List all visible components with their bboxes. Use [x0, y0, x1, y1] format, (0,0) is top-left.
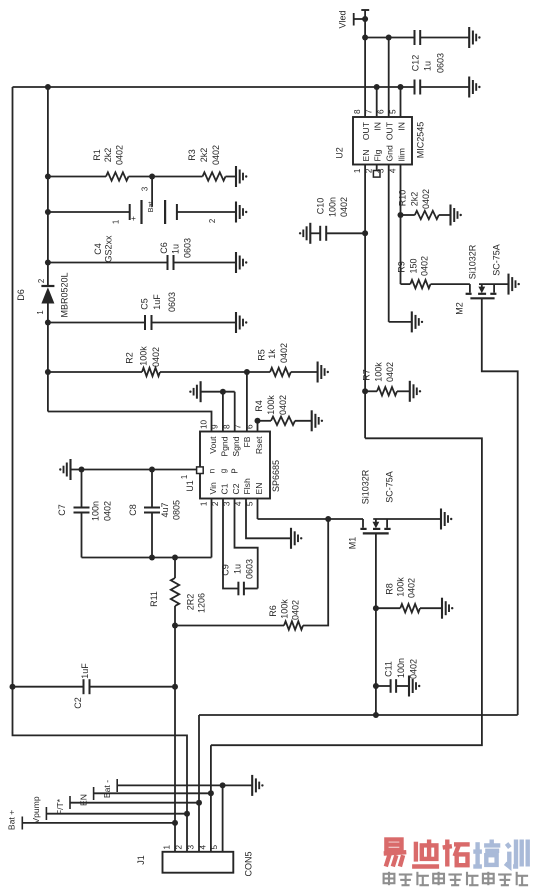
- svg-text:C8: C8: [128, 504, 138, 516]
- label C9 1u 0603: [221, 559, 255, 579]
- svg-text:2k2: 2k2: [103, 148, 113, 163]
- wire battery input rail y=87: [13, 84, 415, 90]
- svg-text:MBR0520L: MBR0520L: [60, 272, 70, 317]
- svg-text:Vpump: Vpump: [31, 796, 41, 823]
- svg-text:Vin: Vin: [208, 482, 218, 494]
- svg-text:100k: 100k: [266, 395, 276, 415]
- svg-text:100k: 100k: [395, 577, 405, 597]
- svg-text:0402: 0402: [103, 501, 113, 521]
- svg-text:C12: C12: [410, 55, 420, 72]
- svg-text:C4: C4: [93, 243, 103, 255]
- capacitor C7: [74, 470, 90, 558]
- label R11 2R2 1206: [149, 591, 207, 613]
- wire EN vertical to connector pin4: [208, 745, 214, 852]
- label C5 1uF 0603: [140, 292, 178, 312]
- svg-text:1u: 1u: [422, 61, 432, 71]
- svg-text:C6: C6: [159, 242, 169, 254]
- svg-text:8: 8: [223, 424, 232, 429]
- svg-text:0402: 0402: [421, 189, 431, 209]
- svg-text:1: 1: [111, 220, 120, 224]
- wire C10 to EN node: [326, 232, 365, 234]
- label R3 2k2 0402: [187, 145, 221, 165]
- ground at battery pin2: [236, 202, 247, 223]
- label C4 GS2xx: [93, 235, 113, 263]
- ground at U2 pin3: [412, 311, 423, 332]
- svg-text:1uF: 1uF: [152, 294, 162, 310]
- resistor R11: [171, 558, 179, 629]
- svg-text:R10: R10: [398, 190, 408, 207]
- wire U2 pin8 OUT to Vled rail: [364, 38, 366, 118]
- U1 pin numbers 10 9 8 7 6: [199, 419, 254, 429]
- svg-text:U1: U1: [185, 480, 195, 492]
- svg-text:C2: C2: [73, 697, 83, 709]
- svg-text:Vout: Vout: [208, 436, 218, 454]
- svg-text:Pgnd: Pgnd: [219, 436, 229, 456]
- resistor R4: [258, 417, 312, 425]
- svg-text:0402: 0402: [339, 197, 349, 217]
- wire EN net to U2 pin1: [211, 438, 482, 745]
- svg-text:3: 3: [141, 187, 150, 191]
- ground at M2 source: [509, 274, 520, 295]
- svg-text:5: 5: [388, 109, 397, 114]
- U2 pin numbers 8 7 6 5: [353, 109, 397, 114]
- capacitor C5: [145, 315, 236, 330]
- svg-text:IN: IN: [396, 122, 406, 131]
- svg-text:1206: 1206: [197, 593, 207, 613]
- svg-text:0402: 0402: [385, 362, 395, 382]
- capacitor C11: [391, 679, 409, 693]
- ground at C11: [409, 676, 420, 697]
- wire F/T* horizontal net: [199, 714, 518, 716]
- svg-text:C1: C1: [219, 483, 229, 494]
- svg-text:9: 9: [211, 424, 220, 429]
- svg-text:100k: 100k: [139, 346, 149, 366]
- label C10 100n 0402: [316, 197, 350, 217]
- ground at U1 Flsh: [291, 528, 302, 549]
- label C11 100n 0402: [383, 658, 418, 679]
- capacitor C10: [310, 226, 326, 241]
- U1 pin numbers 1 2 3 4 5: [199, 501, 254, 506]
- svg-text:0603: 0603: [182, 238, 192, 258]
- svg-text:1u: 1u: [233, 564, 243, 574]
- svg-text:8: 8: [353, 109, 362, 114]
- svg-text:4: 4: [388, 168, 397, 173]
- resistor R1: [45, 172, 155, 180]
- wire C6 row: [45, 260, 168, 266]
- wire U2 pin6 OUT to Vled rail: [388, 38, 390, 118]
- U2 pin2 Flg no-connect square: [373, 165, 380, 178]
- label R6 100k 0402: [268, 599, 301, 620]
- svg-text:CON5: CON5: [244, 851, 254, 876]
- svg-text:D6: D6: [16, 289, 26, 301]
- svg-text:R4: R4: [254, 400, 264, 412]
- label R8 100k 0402: [384, 577, 416, 598]
- battery C4 GS2xx: [45, 200, 236, 224]
- ground at R4: [312, 410, 323, 431]
- svg-text:Flg: Flg: [373, 149, 383, 161]
- svg-text:1: 1: [353, 168, 362, 173]
- transistor M1 Si1032R: [348, 519, 441, 549]
- svg-text:C5: C5: [140, 298, 150, 310]
- svg-text:1uF: 1uF: [80, 663, 90, 679]
- wire to C11: [376, 685, 391, 687]
- svg-text:C10: C10: [316, 198, 326, 215]
- svg-text:6: 6: [245, 424, 254, 429]
- svg-text:Vled: Vled: [337, 10, 347, 28]
- svg-text:EN: EN: [361, 150, 371, 162]
- svg-text:U2: U2: [335, 147, 345, 159]
- svg-text:IN: IN: [373, 122, 383, 131]
- label C12 1u 0603: [410, 53, 445, 73]
- resistor R7: [365, 387, 410, 395]
- ground at C6: [236, 252, 247, 273]
- svg-text:0402: 0402: [279, 343, 289, 363]
- label R5 1k 0402: [257, 343, 289, 363]
- svg-text:SC-75A: SC-75A: [385, 471, 395, 503]
- wire Vin bottom line: [82, 555, 212, 561]
- svg-text:1: 1: [180, 475, 189, 479]
- wire U1 pin2 C1 to C9: [223, 499, 238, 589]
- wire Vled rail: [362, 19, 414, 41]
- svg-text:0402: 0402: [278, 395, 288, 415]
- ground at C5: [236, 312, 247, 333]
- ground at R10: [451, 205, 462, 226]
- svg-text:2k2: 2k2: [410, 192, 420, 207]
- label R1 2k2 0402: [92, 145, 125, 165]
- svg-text:1k: 1k: [267, 349, 277, 359]
- svg-text:4: 4: [199, 845, 208, 850]
- label R10 2k2 0402: [398, 189, 432, 209]
- svg-text:1: 1: [199, 501, 208, 506]
- svg-text:EN: EN: [79, 794, 89, 806]
- wire node FB-div to U1 pin10: [48, 412, 212, 432]
- label M1 Si1032R SC-75A: [361, 469, 395, 504]
- svg-text:g: g: [219, 469, 228, 473]
- diode D6 MBR0520L: [16, 272, 70, 317]
- wire C5 row: [45, 320, 145, 326]
- svg-text:R1: R1: [92, 149, 102, 161]
- svg-text:MIC2545: MIC2545: [416, 122, 426, 159]
- svg-text:4u7: 4u7: [160, 502, 170, 517]
- ground wire to U1 pad (gnd line): [59, 459, 197, 480]
- wire D6 anode down: [47, 304, 49, 412]
- wire U1 pin4 Flsh to ground: [246, 499, 291, 539]
- ground wire at U1 Pgnd/Sgnd: [189, 381, 235, 402]
- wire U1 pin8 Sgnd: [234, 392, 236, 432]
- wire F/T* vertical to connector pin3: [196, 715, 202, 852]
- wire M1 gate to F/T* node: [373, 533, 379, 718]
- capacitor C2: [84, 679, 176, 694]
- svg-text:5: 5: [210, 845, 219, 850]
- svg-text:Si1032R: Si1032R: [468, 244, 478, 279]
- svg-text:100n: 100n: [91, 501, 101, 521]
- svg-text:R8: R8: [384, 583, 394, 595]
- svg-text:0603: 0603: [436, 53, 446, 73]
- wire Bat+ vertical to connector: [172, 626, 178, 852]
- wire U1 pin9 Pgnd: [222, 392, 224, 432]
- resistor R8: [376, 604, 442, 612]
- svg-text:10: 10: [199, 419, 208, 429]
- wire C9 to U1 pin3 C2: [235, 499, 258, 589]
- net label wire Vpump: [31, 796, 187, 823]
- wire U1 pin7 FB up: [246, 372, 248, 432]
- svg-text:0805: 0805: [172, 500, 182, 520]
- svg-text:1: 1: [163, 845, 172, 850]
- svg-text:Bat -: Bat -: [102, 780, 112, 798]
- svg-text:100k: 100k: [374, 362, 384, 382]
- svg-text:R5: R5: [257, 349, 267, 361]
- svg-text:R6: R6: [268, 605, 278, 617]
- wire battery pin3 tap: [141, 177, 155, 213]
- resistor R10: [401, 211, 451, 219]
- svg-text:R9: R9: [397, 261, 407, 273]
- watermark subtitle text: [384, 872, 528, 885]
- svg-text:2: 2: [175, 845, 184, 850]
- svg-text:0402: 0402: [291, 600, 301, 620]
- resistor R3: [152, 172, 236, 180]
- J1 pin numbers 1 2 3 4 5: [163, 845, 220, 850]
- U2 pin numbers 1 2 3 4: [353, 168, 397, 173]
- svg-text:2R2: 2R2: [186, 594, 196, 611]
- svg-text:2: 2: [208, 219, 217, 223]
- svg-text:M2: M2: [455, 302, 465, 315]
- resistor R9: [401, 280, 470, 288]
- label R7 100k 0402: [361, 362, 395, 382]
- wire U2 pin5 IN to input rail: [400, 87, 402, 117]
- svg-text:n: n: [208, 469, 217, 473]
- label C7 100n 0402: [57, 501, 113, 521]
- capacitor C9: [238, 582, 257, 596]
- ground at C12: [469, 27, 480, 48]
- svg-text:F/T*: F/T*: [55, 798, 65, 815]
- op-amp U2 MIC2545 body: [335, 117, 426, 165]
- svg-text:6: 6: [377, 109, 386, 114]
- wire U2 pin3 Gnd down: [389, 165, 412, 322]
- svg-text:7: 7: [234, 424, 243, 429]
- wire U1 pin1 Vin down: [211, 499, 213, 558]
- svg-text:Flsh: Flsh: [242, 478, 252, 494]
- label C2 1uF: [73, 663, 90, 709]
- watermark logo text: [384, 840, 528, 867]
- svg-text:SC-75A: SC-75A: [492, 244, 502, 276]
- op-amp U1 SP6685 body: [200, 432, 281, 499]
- wire U2 pin7 IN to input rail: [376, 87, 378, 117]
- svg-text:0402: 0402: [406, 578, 416, 598]
- svg-text:0402: 0402: [420, 256, 430, 276]
- svg-text:C9: C9: [221, 564, 231, 576]
- wire Bat- to connector pin5: [222, 785, 224, 851]
- label R9 150 0402: [397, 256, 430, 276]
- connector J1 CON5 body: [136, 851, 254, 876]
- ground at C10: [299, 223, 310, 244]
- label C8 4u7 0805: [128, 500, 182, 520]
- ground at R3: [236, 166, 247, 187]
- net label wire Bat-: [102, 779, 252, 798]
- svg-text:Sgnd: Sgnd: [231, 436, 241, 456]
- svg-text:Ilim: Ilim: [396, 148, 406, 161]
- label R2 100k 0402: [125, 346, 162, 367]
- ground at Bat-: [252, 775, 263, 796]
- capacitor C12: [415, 30, 470, 45]
- resistor R6: [175, 519, 328, 630]
- ground at M1 source: [441, 509, 452, 530]
- svg-text:FB: FB: [242, 436, 252, 447]
- svg-text:1: 1: [36, 310, 45, 314]
- svg-text:0402: 0402: [151, 347, 161, 367]
- svg-text:C7: C7: [57, 504, 67, 516]
- resistor R5: [247, 368, 318, 376]
- svg-text:J1: J1: [136, 855, 146, 865]
- ground at R5: [318, 362, 329, 383]
- svg-text:100n: 100n: [396, 658, 406, 678]
- wire U2 pin1 EN down (node EN): [362, 165, 368, 439]
- svg-text:Bat: Bat: [146, 202, 155, 213]
- resistor R2: [45, 368, 250, 376]
- U1 pin1 pad and designator: [180, 467, 203, 492]
- svg-text:0603: 0603: [167, 292, 177, 312]
- svg-text:P: P: [231, 468, 240, 473]
- wire U1 pin5 EN to M1 drain: [258, 499, 364, 523]
- svg-text:2k2: 2k2: [199, 148, 209, 163]
- svg-text:EN: EN: [254, 483, 264, 495]
- svg-text:100k: 100k: [280, 599, 290, 619]
- svg-text:0603: 0603: [245, 559, 255, 579]
- svg-text:0402: 0402: [211, 145, 221, 165]
- svg-text:M1: M1: [348, 537, 358, 550]
- svg-text:GS2xx: GS2xx: [103, 235, 113, 263]
- ground at R8: [442, 598, 453, 619]
- svg-text:Bat +: Bat +: [6, 810, 16, 830]
- svg-text:3: 3: [187, 845, 196, 850]
- svg-text:OUT: OUT: [385, 121, 395, 140]
- svg-text:100n: 100n: [328, 197, 338, 217]
- net label wire F/T*: [55, 796, 199, 815]
- ground at R7: [410, 381, 421, 402]
- capacitor C8: [144, 470, 160, 558]
- wire node Bat+ vertical: [47, 87, 49, 286]
- svg-text:C2: C2: [231, 483, 241, 494]
- capacitor C6: [168, 255, 237, 270]
- svg-text:Rset: Rset: [254, 436, 264, 454]
- net label wire Bat+: [6, 810, 175, 830]
- wire U2 pin4 Ilim down: [398, 165, 404, 285]
- wire Vpump left bus: [10, 87, 191, 852]
- wire C2 row left: [13, 686, 84, 688]
- transistor M2 Si1032R: [455, 284, 509, 315]
- svg-text:C11: C11: [383, 661, 393, 677]
- label C6 1u 0603: [159, 238, 193, 258]
- label M2 Si1032R SC-75A: [468, 244, 502, 279]
- svg-text:R3: R3: [187, 149, 197, 161]
- svg-text:+: +: [128, 216, 138, 221]
- capacitor input bypass (unlabeled): [415, 80, 470, 95]
- power flag Vled: [337, 10, 369, 29]
- wire M2 gate to F/T* line: [482, 298, 518, 715]
- ground at input bypass cap: [469, 77, 480, 98]
- net label wire EN: [79, 787, 211, 806]
- svg-text:2: 2: [37, 279, 46, 283]
- svg-text:R2: R2: [125, 352, 135, 364]
- svg-text:R11: R11: [149, 591, 159, 607]
- svg-text:Gnd: Gnd: [385, 145, 395, 161]
- wire U1 pin6 Rset stub: [255, 418, 261, 432]
- svg-text:150: 150: [409, 258, 419, 273]
- svg-text:0402: 0402: [115, 145, 125, 165]
- svg-text:SP6685: SP6685: [271, 460, 281, 492]
- svg-text:Si1032R: Si1032R: [361, 469, 371, 504]
- svg-text:1u: 1u: [170, 244, 180, 254]
- label R4 100k 0402: [254, 395, 288, 415]
- svg-text:R7: R7: [361, 369, 371, 381]
- svg-text:OUT: OUT: [361, 121, 371, 140]
